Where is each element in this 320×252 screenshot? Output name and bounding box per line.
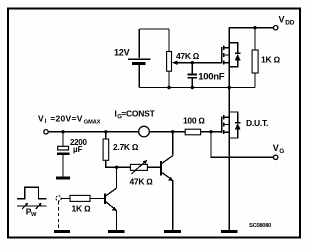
svg-text:V: V [279, 14, 285, 24]
svg-text:µF: µF [73, 145, 83, 154]
node Q3 collector junction [171, 130, 174, 133]
resistor R3 1K [254, 28, 256, 50]
svg-text:2.7K Ω: 2.7K Ω [113, 142, 139, 152]
wire Q2 emitter [115, 210, 117, 230]
node C2 bottom junction [191, 86, 194, 89]
node R4 junction [104, 130, 107, 133]
wire dashed to ground [58, 201, 60, 230]
ground Q2 emitter [108, 230, 125, 233]
wire Q3 emitter [172, 180, 174, 230]
current source IG circle [139, 126, 150, 137]
terminal VDD [274, 26, 278, 30]
wiper arrow of pot R2 [172, 61, 222, 65]
svg-text:V: V [273, 143, 279, 153]
svg-text:=20V=V: =20V=V [50, 113, 83, 123]
ground C1 [56, 177, 70, 180]
wire VDD rail [229, 27, 273, 29]
wire pot top lead [168, 29, 170, 52]
wire Q1 drain up [228, 28, 230, 43]
terminal pulse input dashed [56, 196, 61, 201]
mosfet Q1 driver [222, 43, 230, 67]
capacitor C1 2200uF [57, 132, 69, 177]
wire Q3 collector [172, 132, 174, 156]
svg-text:100nF: 100nF [198, 72, 224, 83]
capacitor C2 100nF [187, 63, 197, 88]
svg-text:1K Ω: 1K Ω [261, 55, 281, 65]
PW arrow left [22, 203, 27, 209]
wire DUT drain [228, 88, 230, 113]
body diode D2 of DUT [229, 112, 240, 138]
node cap 2200 junction [61, 130, 64, 133]
wire DUT source down [228, 138, 230, 230]
svg-text:DD: DD [285, 20, 294, 27]
terminal VG [274, 155, 278, 159]
svg-text:G: G [279, 148, 284, 155]
node DUT gate junction [209, 130, 212, 133]
wire gate rail right [149, 131, 185, 133]
ground DUT source [221, 230, 238, 233]
node VDD junction [253, 26, 256, 29]
terminal VI input [44, 130, 48, 134]
ground pulse terminal [54, 230, 70, 233]
transistor Q3 right NPN [161, 156, 173, 180]
PW measure line [17, 205, 46, 207]
svg-text:12V: 12V [114, 48, 130, 58]
node Q1 source junction [228, 86, 231, 89]
battery B1 12V [128, 29, 151, 88]
node pot bottom junction [167, 86, 170, 89]
wire Q2 collector [115, 167, 117, 188]
wire battery loop top [139, 28, 169, 30]
resistor R6 100 ohm [185, 129, 200, 135]
resistor R4 2.7K [105, 132, 107, 139]
svg-text:1K Ω: 1K Ω [72, 203, 92, 213]
potentiometer R5 47K horizontal [117, 166, 131, 168]
wire VG tap [211, 132, 274, 158]
svg-text:W: W [31, 212, 37, 218]
wire mid rail [139, 87, 255, 89]
transistor Q2 left NPN [105, 188, 116, 209]
svg-text:47K Ω: 47K Ω [130, 177, 154, 187]
wire pot bottom lead [168, 71, 170, 87]
svg-text:=CONST: =CONST [121, 108, 155, 118]
body diode D1 of Q1 [229, 43, 240, 67]
wire gate rail left [48, 131, 139, 133]
mosfet DUT [222, 112, 230, 138]
svg-text:GMAX: GMAX [84, 119, 101, 125]
svg-text:V: V [38, 113, 44, 123]
potentiometer R2 47K vertical [167, 52, 172, 72]
svg-text:47K Ω: 47K Ω [176, 51, 200, 61]
pulse waveform PW [17, 187, 46, 199]
PW arrow right [36, 203, 41, 209]
resistor R1 1K base [61, 197, 70, 199]
svg-text:SC08080: SC08080 [249, 223, 271, 229]
node tap junction [191, 61, 194, 64]
ground Q3 emitter [164, 230, 181, 233]
svg-text:D.U.T.: D.U.T. [246, 118, 268, 128]
wire Q1 source down [228, 67, 230, 88]
svg-text:100 Ω: 100 Ω [183, 116, 205, 126]
node base drive junction [115, 166, 118, 169]
